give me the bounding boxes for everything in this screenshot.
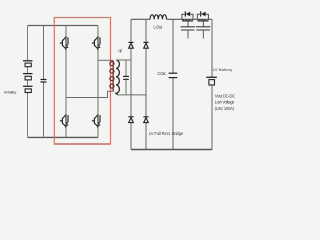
svg-text:LV Full Rect. Bridge: LV Full Rect. Bridge [149, 131, 184, 136]
diode D3 bottom-left [128, 117, 133, 123]
transistor Q2 upper-right IGBT [92, 36, 101, 51]
wire secondary top [116, 59, 131, 61]
svg-text:Vout DC-DC: Vout DC-DC [215, 93, 236, 98]
wire primary top (right leg to transformer) [98, 59, 113, 61]
wire HV bridge right leg [97, 26, 99, 138]
wire DC-link capacitor branch [43, 26, 45, 138]
capacitor C-Out [169, 73, 178, 77]
transistor M2 sync MOSFET 2 [196, 11, 211, 38]
wire LV bottom rail [131, 149, 212, 151]
transformer T1 secondary winding [116, 60, 119, 95]
red box HV full bridge outline [54, 18, 110, 145]
wire LV bridge left leg [130, 19, 132, 149]
transistor Q3 lower-left IGBT [60, 114, 69, 129]
transistor Q4 lower-right IGBT [92, 114, 101, 129]
wire LV top rail [131, 18, 212, 20]
svg-text:(14V, 100A): (14V, 100A) [215, 106, 235, 111]
wire C-Out branch [172, 19, 174, 149]
wire HV bottom rail [28, 136, 99, 138]
diode D4 bottom-right [143, 117, 148, 123]
red box bottom edge [54, 143, 110, 145]
capacitor DC-link [41, 80, 47, 83]
diode D2 top-right [143, 42, 148, 48]
svg-text:Low Voltage: Low Voltage [215, 100, 236, 105]
transistor M1 sync MOSFET 1 [181, 11, 196, 38]
wire HV top rail [28, 25, 99, 27]
wire primary bottom (left leg to transformer) [66, 91, 113, 97]
wire LV battery branch [211, 19, 213, 149]
wire LV bridge right leg [145, 19, 147, 149]
battery HV Battery cell 3 [23, 86, 33, 92]
transformer T1 primary winding [110, 61, 114, 92]
svg-text:HF: HF [118, 48, 123, 53]
battery HV Battery cell 2 [23, 74, 33, 80]
capacitor snubber [123, 76, 129, 79]
wire secondary bottom [118, 94, 146, 96]
svg-text:LV Battery: LV Battery [213, 67, 233, 72]
svg-text:HV Battery: HV Battery [4, 90, 17, 94]
transistor Q1 upper-left IGBT [60, 36, 69, 51]
svg-text:C Out: C Out [157, 71, 166, 76]
wire HV bridge left leg [65, 26, 67, 138]
wire snubber capacitor branch [125, 60, 127, 95]
battery LV Battery [206, 77, 217, 85]
wire HV battery branch [27, 26, 29, 138]
battery HV Battery cell 1 [23, 61, 33, 67]
diode D1 top-left [128, 42, 133, 48]
inductor L-Out coil [150, 15, 167, 20]
svg-text:L-Out: L-Out [153, 24, 162, 29]
